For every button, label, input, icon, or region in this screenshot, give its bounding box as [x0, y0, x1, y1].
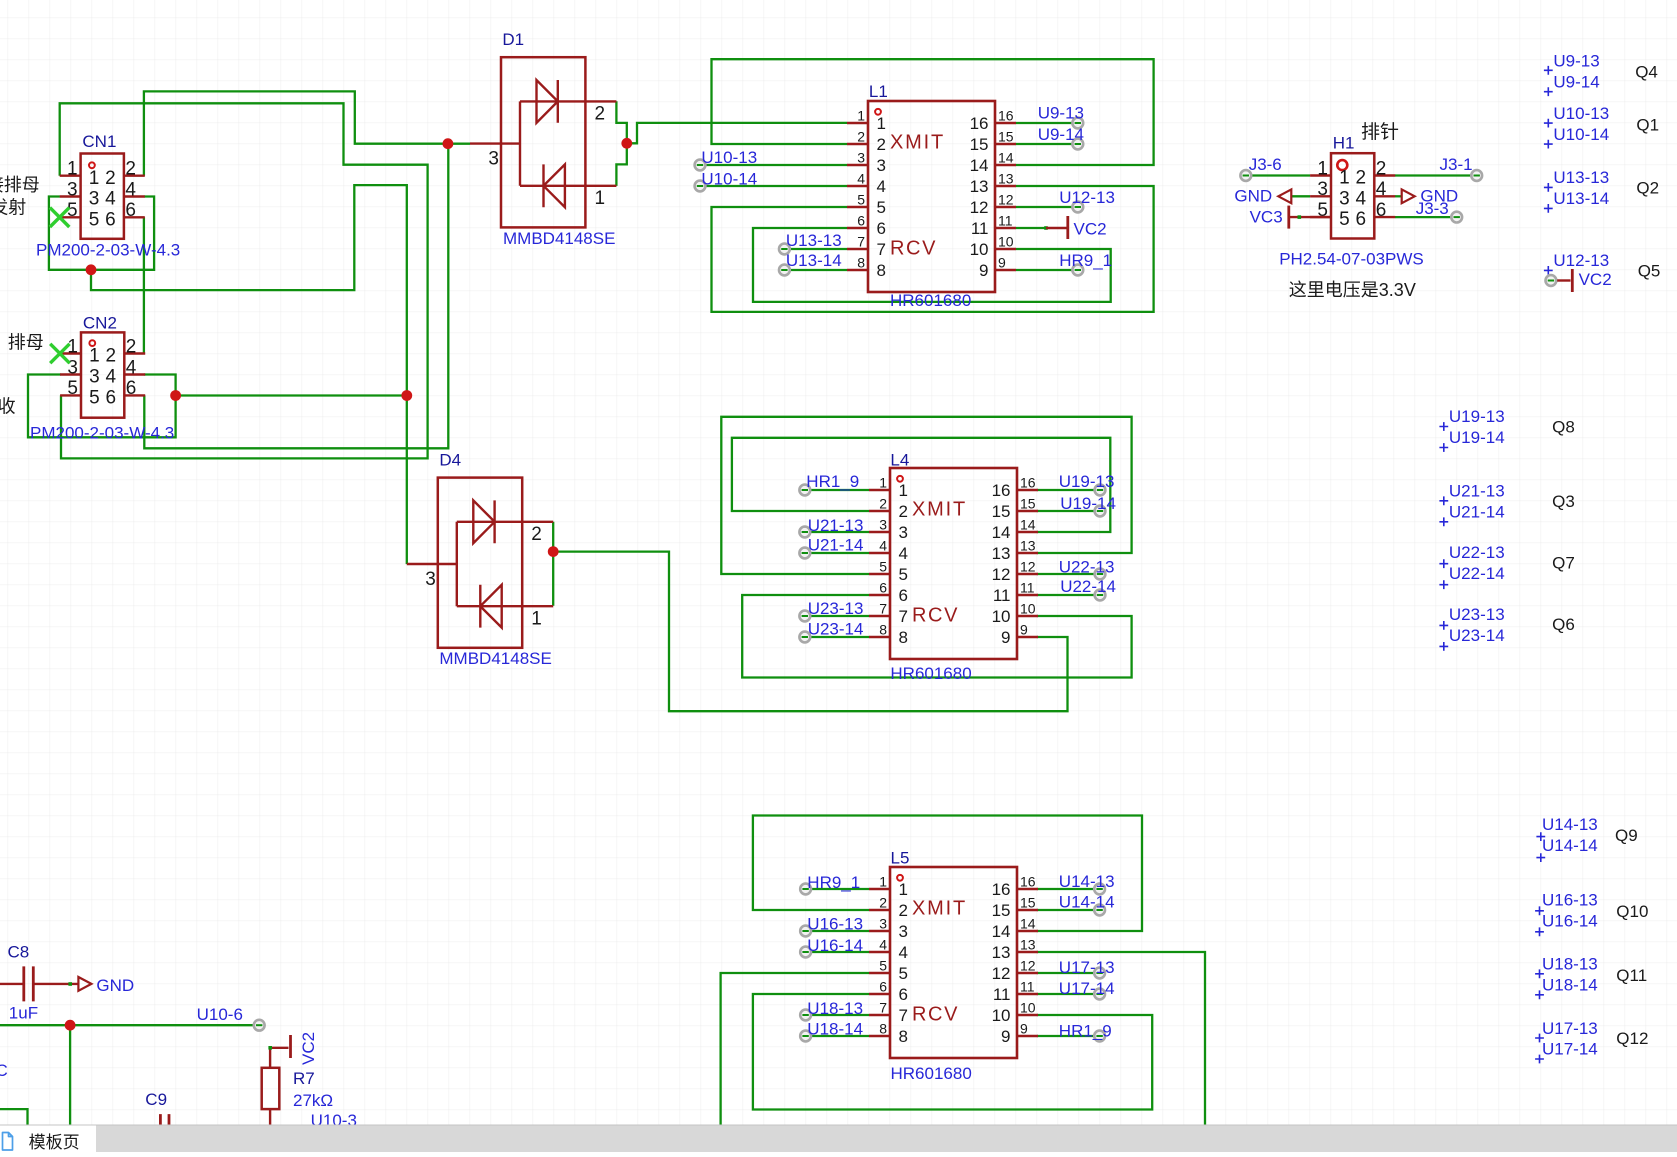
svg-text:U21-14: U21-14: [1449, 503, 1505, 522]
svg-text:11: 11: [993, 586, 1011, 605]
svg-text:15: 15: [1020, 496, 1036, 512]
svg-text:13: 13: [1020, 538, 1036, 554]
IC L1 pin 14: [995, 164, 1016, 166]
svg-text:2: 2: [106, 346, 117, 367]
svg-text:L5: L5: [891, 849, 910, 868]
svg-text:排针: 排针: [1361, 121, 1399, 143]
svg-text:U22-14: U22-14: [1060, 577, 1116, 596]
svg-text:U9-14: U9-14: [1038, 125, 1084, 144]
svg-text:5: 5: [857, 192, 865, 208]
wire H1 pin3 to GND: [1292, 195, 1311, 197]
IC L5 pin 2: [869, 909, 890, 911]
IC L1 pin 5: [847, 206, 868, 208]
wire L4 pin6 to pin10: [742, 595, 1131, 678]
connector CN1 pin 5: [60, 216, 81, 218]
wire CN1 pin1 to CN2 pin5: [60, 103, 428, 458]
connector H1 pin 1: [1310, 174, 1331, 176]
wire net U10-13 to L1 pin3: [700, 164, 847, 166]
wire CN2 pin6 to D1 pin3 junction: [144, 144, 448, 449]
IC L1 pin 1: [847, 122, 868, 124]
svg-text:10: 10: [992, 607, 1011, 626]
wire D4 output to L4 pin9: [553, 552, 1067, 712]
svg-text:U18-14: U18-14: [807, 1020, 863, 1039]
svg-text:2: 2: [126, 336, 137, 357]
diode D1 pin 3 lead: [470, 101, 520, 185]
svg-text:RCV: RCV: [912, 1004, 959, 1026]
wire U21-13 to L4 pin3: [805, 531, 869, 533]
svg-text:8: 8: [879, 622, 887, 638]
wire L4 pin11 to U22-14: [1037, 594, 1100, 596]
svg-text:5: 5: [89, 388, 100, 409]
svg-text:U17-13: U17-13: [1542, 1019, 1598, 1038]
svg-text:1: 1: [89, 168, 100, 189]
svg-text:4: 4: [899, 943, 908, 962]
svg-text:1: 1: [89, 346, 100, 367]
svg-text:XMIT: XMIT: [912, 898, 967, 920]
connector CN1 body: [81, 154, 124, 239]
svg-text:1: 1: [899, 880, 908, 899]
svg-text:U9-14: U9-14: [1553, 73, 1599, 92]
svg-text:14: 14: [970, 156, 989, 175]
wire J3-6 to H1 pin1: [1246, 174, 1310, 176]
net port U16-14: [800, 947, 811, 958]
net port U19-13: [1095, 485, 1106, 496]
svg-text:8: 8: [899, 628, 908, 647]
svg-text:4: 4: [1356, 188, 1367, 209]
svg-text:15: 15: [1020, 895, 1036, 911]
svg-text:12: 12: [992, 964, 1011, 983]
IC L5 pin 1: [869, 888, 890, 890]
IC L1 pin 10: [995, 248, 1016, 250]
IC L5 pin 14: [1017, 930, 1038, 932]
wire L4 pin2 to pin14: [732, 438, 1110, 532]
IC L1 pin 12: [995, 206, 1016, 208]
svg-text:U21-14: U21-14: [808, 536, 864, 555]
svg-text:3: 3: [89, 189, 100, 210]
IC L1 pin 16: [995, 122, 1016, 124]
svg-text:7: 7: [899, 1006, 908, 1025]
svg-text:PM200-2-03-W-4.3: PM200-2-03-W-4.3: [30, 424, 174, 443]
svg-text:5: 5: [89, 209, 100, 230]
IC L5 pin 5: [869, 972, 890, 974]
power symbol VC2 at L1 pin11: [1044, 226, 1048, 230]
svg-text:HR601680: HR601680: [891, 1064, 972, 1083]
wire U23-13 to L4 pin7: [805, 615, 869, 617]
net port VC2 at Q5: [1546, 275, 1557, 286]
wire D4 output jog: [552, 522, 554, 606]
svg-text:U23-14: U23-14: [808, 620, 864, 639]
svg-text:7: 7: [879, 601, 887, 617]
connector H1 pin-1 indicator: [1337, 160, 1347, 170]
svg-text:5: 5: [879, 958, 887, 974]
diode D4 pin 3 lead: [407, 522, 457, 606]
wire D1 pin3 stub: [448, 143, 470, 145]
svg-text:J3-3: J3-3: [1416, 199, 1449, 218]
IC L4 pin 7: [869, 615, 890, 617]
IC L5 pin 7: [869, 1014, 890, 1016]
svg-text:L1: L1: [869, 82, 888, 101]
wire H1 pin2 to J3-1: [1395, 174, 1477, 176]
svg-text:1: 1: [67, 159, 78, 180]
ground symbol GND at C8: [78, 977, 91, 991]
wire L1 pin9 to HR9_1: [1016, 269, 1078, 271]
net port U22-14: [1095, 590, 1106, 601]
svg-text:排母: 排母: [8, 333, 44, 353]
connector H1 pin 5: [1310, 216, 1331, 218]
svg-text:接排母: 接排母: [0, 175, 40, 195]
svg-text:3: 3: [877, 156, 886, 175]
svg-text:6: 6: [877, 219, 886, 238]
IC L1 pin 13: [995, 185, 1016, 187]
svg-text:13: 13: [1020, 937, 1036, 953]
svg-text:VC2: VC2: [299, 1032, 318, 1065]
IC L5 pin 12: [1017, 972, 1038, 974]
wire L1 pin11 to VC2: [1016, 227, 1046, 229]
svg-text:6: 6: [126, 378, 137, 399]
svg-text:U12-13: U12-13: [1553, 251, 1609, 270]
wire L1 pin16 to U9-13: [1016, 122, 1078, 124]
wire CN1 pin6 to CN2 pin2: [143, 217, 145, 353]
wire L5 pin16 to U14-13: [1037, 888, 1100, 890]
svg-text:U18-13: U18-13: [1542, 955, 1598, 974]
net port U21-13: [799, 527, 810, 538]
wire L5 pin15 to U14-14: [1037, 909, 1100, 911]
svg-text:D4: D4: [439, 451, 461, 470]
svg-text:7: 7: [879, 1000, 887, 1016]
svg-text:1: 1: [1317, 158, 1328, 179]
svg-text:Q6: Q6: [1552, 615, 1575, 634]
svg-text:3: 3: [899, 922, 908, 941]
svg-text:U19-13: U19-13: [1449, 407, 1505, 426]
svg-text:HR601680: HR601680: [890, 291, 971, 310]
svg-text:U23-13: U23-13: [1449, 605, 1505, 624]
svg-text:U23-13: U23-13: [808, 599, 864, 618]
wire net U10-14 to L1 pin4: [700, 185, 847, 187]
IC L5 pin 4: [869, 951, 890, 953]
svg-text:接收: 接收: [0, 397, 16, 417]
junction D1 output: [621, 138, 632, 149]
svg-text:U12-13: U12-13: [1059, 188, 1115, 207]
wire L1 pin6 to pin10: [753, 228, 1111, 302]
IC L4 pin 12: [1017, 573, 1038, 575]
svg-text:PM200-2-03-W-4.3: PM200-2-03-W-4.3: [36, 241, 180, 260]
svg-text:2: 2: [1356, 168, 1367, 189]
svg-text:U10-6: U10-6: [197, 1005, 243, 1024]
junction CN2 pin4: [170, 390, 181, 401]
IC L4 pin 14: [1017, 531, 1038, 533]
net port U17-13: [1094, 968, 1105, 979]
svg-text:Q5: Q5: [1638, 262, 1661, 281]
svg-text:VC2: VC2: [1074, 220, 1107, 239]
svg-text:4: 4: [877, 177, 886, 196]
svg-text:3: 3: [1339, 188, 1350, 209]
wire L4 pin5 to pin13: [721, 417, 1131, 574]
svg-text:Q12: Q12: [1616, 1029, 1648, 1048]
IC L4 pin 3: [869, 531, 890, 533]
svg-text:GND: GND: [96, 976, 134, 995]
svg-text:9: 9: [1001, 1027, 1010, 1046]
net port U13-14: [779, 265, 790, 276]
svg-text:3: 3: [857, 150, 865, 166]
svg-text:Q3: Q3: [1552, 492, 1575, 511]
svg-text:1: 1: [857, 108, 865, 124]
wire L5 pin2 to pin14: [753, 816, 1142, 932]
svg-text:5: 5: [67, 378, 78, 399]
svg-text:U10-14: U10-14: [701, 169, 757, 188]
wire U16-14 to L5 pin4: [806, 951, 869, 953]
svg-text:15: 15: [998, 129, 1014, 145]
svg-text:U14-14: U14-14: [1059, 892, 1115, 911]
IC L1 pin-1 indicator: [875, 109, 881, 115]
svg-text:H1: H1: [1333, 134, 1355, 153]
svg-text:XMIT: XMIT: [912, 499, 967, 521]
svg-text:3: 3: [67, 179, 78, 200]
IC L4 pin 15: [1017, 510, 1038, 512]
svg-text:RCV: RCV: [912, 605, 959, 627]
wire L1 pin5 to pin13: [712, 186, 1154, 312]
IC L1 pin 9: [995, 269, 1016, 271]
net port U23-13: [799, 611, 810, 622]
svg-text:4: 4: [125, 179, 136, 200]
svg-text:2: 2: [899, 901, 908, 920]
svg-text:Q11: Q11: [1616, 966, 1647, 985]
svg-text:U17-14: U17-14: [1059, 979, 1115, 998]
IC L5 pin 10: [1017, 1014, 1038, 1016]
wire L1 pin15 to U9-14: [1016, 143, 1078, 145]
svg-text:这里电压是3.3V: 这里电压是3.3V: [1289, 280, 1416, 300]
connector H1 body: [1331, 153, 1374, 238]
svg-text:Q9: Q9: [1615, 826, 1638, 845]
svg-text:3: 3: [879, 517, 887, 533]
svg-text:1: 1: [531, 609, 542, 630]
wire L5 pin9 to HR1_9: [1037, 1035, 1100, 1037]
svg-text:U13-13: U13-13: [786, 231, 842, 250]
svg-text:5: 5: [899, 565, 908, 584]
connector CN2 body: [81, 332, 124, 417]
wire L5 pin11 to U17-14: [1037, 993, 1100, 995]
diode D4 bottom diode element: [457, 585, 553, 628]
svg-text:PH2.54-07-03PWS: PH2.54-07-03PWS: [1279, 250, 1424, 269]
IC L5 pin 8: [869, 1035, 890, 1037]
net port HR1_9: [1094, 1031, 1105, 1042]
svg-text:Q4: Q4: [1635, 63, 1658, 82]
net port HR1_9: [799, 485, 810, 496]
IC L1 pin 6: [847, 227, 868, 229]
capacitor C8 plates: [24, 966, 34, 1001]
svg-text:16: 16: [992, 880, 1011, 899]
wire L4 pin15 to U19-14: [1037, 510, 1100, 512]
svg-text:U9-13: U9-13: [1038, 104, 1084, 123]
wire U18-13 to L5 pin7: [806, 1014, 869, 1016]
svg-text:U19-14: U19-14: [1060, 494, 1116, 513]
wire junction below CN1 to D4 pin3: [91, 185, 407, 564]
svg-text:9: 9: [1020, 1021, 1028, 1037]
svg-text:14: 14: [992, 922, 1011, 941]
wire net U13-13 to L1 pin7: [784, 248, 847, 250]
svg-text:VC2: VC2: [1579, 270, 1612, 289]
wire C8 to GND: [33, 983, 78, 985]
wire L4 pin12 to U22-13: [1037, 573, 1100, 575]
wire L1 pin2 to pin14: [712, 59, 1154, 165]
IC L5 pin-1 indicator: [897, 875, 903, 881]
svg-text:HR601680: HR601680: [890, 664, 971, 683]
wire U21-14 to L4 pin4: [805, 552, 869, 554]
IC L1 HR601680 body: [868, 101, 995, 292]
net port U14-14: [1094, 905, 1105, 916]
svg-text:2: 2: [857, 129, 865, 145]
svg-text:3: 3: [488, 149, 499, 170]
svg-text:13: 13: [992, 544, 1011, 563]
svg-text:4: 4: [857, 171, 865, 187]
net port U16-13: [800, 926, 811, 937]
svg-text:2: 2: [595, 104, 606, 125]
wire U16-13 to L5 pin3: [806, 930, 869, 932]
ground symbol right of H1: [1402, 189, 1415, 203]
svg-text:4: 4: [899, 544, 908, 563]
svg-text:8: 8: [857, 255, 865, 271]
wire junction drop bottom-left: [69, 1025, 71, 1152]
IC L4 pin 8: [869, 636, 890, 638]
wire CN1 pin2 to D1 pin3: [144, 91, 448, 175]
svg-text:6: 6: [879, 580, 887, 596]
svg-text:3: 3: [1317, 179, 1328, 200]
IC L4 pin 10: [1017, 615, 1038, 617]
UI tab bar: [0, 1125, 1677, 1152]
svg-text:2: 2: [877, 135, 886, 154]
diode D4 top diode element: [457, 500, 553, 543]
net port U10-14: [695, 181, 706, 192]
resistor R7 leads: [269, 1048, 271, 1126]
wire net U13-14 to L1 pin8: [784, 269, 847, 271]
wire CN1 pin3 loop to pin4: [49, 197, 154, 270]
svg-text:13: 13: [998, 171, 1014, 187]
svg-text:7: 7: [877, 240, 886, 259]
wire L5 pin13 down: [1037, 952, 1205, 1152]
svg-text:GND: GND: [1234, 187, 1272, 206]
svg-text:发射: 发射: [0, 197, 26, 217]
svg-text:12: 12: [992, 565, 1011, 584]
svg-text:2: 2: [1376, 158, 1387, 179]
svg-text:6: 6: [105, 209, 116, 230]
svg-text:U22-13: U22-13: [1449, 543, 1505, 562]
wire net U10-6: [0, 1024, 259, 1026]
svg-text:12: 12: [970, 198, 989, 217]
svg-text:MMBD4148SE: MMBD4148SE: [439, 649, 551, 668]
svg-text:U17-13: U17-13: [1059, 958, 1115, 977]
svg-text:Q1: Q1: [1636, 116, 1659, 135]
svg-text:7: 7: [899, 607, 908, 626]
connector CN1 pin-1 indicator: [89, 162, 95, 168]
IC L1 pin 7: [847, 248, 868, 250]
wire CN2 net to D4 vertical: [176, 394, 407, 396]
net port U19-14: [1095, 506, 1106, 517]
wire H1 pin4 to GND: [1395, 195, 1401, 197]
IC L4 pin 5: [869, 573, 890, 575]
IC L4 pin-1 indicator: [897, 476, 903, 482]
IC L1 pin 8: [847, 269, 868, 271]
svg-text:10: 10: [992, 1006, 1011, 1025]
svg-text:6: 6: [1356, 209, 1367, 230]
junction U10-6 wire: [65, 1020, 76, 1031]
svg-text:U10-13: U10-13: [1553, 104, 1609, 123]
svg-text:10: 10: [970, 240, 989, 259]
svg-text:3: 3: [899, 523, 908, 542]
connector CN1 pin 2: [124, 174, 145, 176]
IC L4 pin 1: [869, 489, 890, 491]
svg-text:12: 12: [1020, 559, 1036, 575]
svg-text:CN1: CN1: [82, 132, 116, 151]
wire L4 pin16 to U19-13: [1037, 489, 1100, 491]
svg-text:C: C: [0, 1061, 8, 1080]
net port U21-14: [799, 548, 810, 559]
connector CN1 pin 3: [60, 195, 81, 197]
net port U9-14: [1072, 139, 1083, 150]
net port HR9_1: [1072, 265, 1083, 276]
svg-text:U13-14: U13-14: [1553, 189, 1609, 208]
svg-text:8: 8: [899, 1027, 908, 1046]
net port U10-6: [254, 1020, 265, 1031]
svg-text:RCV: RCV: [890, 238, 937, 260]
svg-text:12: 12: [998, 192, 1014, 208]
svg-text:14: 14: [1020, 916, 1036, 932]
svg-text:15: 15: [992, 502, 1011, 521]
connector CN2 pin 3: [60, 373, 81, 375]
svg-text:10: 10: [1020, 1000, 1036, 1016]
IC L5 HR601680 body: [890, 867, 1017, 1058]
power symbol VC2 at Q5: [1557, 279, 1570, 281]
svg-text:8: 8: [877, 261, 886, 280]
svg-text:6: 6: [899, 586, 908, 605]
net port U13-13: [779, 244, 790, 255]
IC L4 pin 9: [1017, 636, 1038, 638]
IC L1 pin 15: [995, 143, 1016, 145]
svg-text:U16-14: U16-14: [807, 936, 863, 955]
connector CN2 pin 2: [124, 352, 145, 354]
IC L5 pin 9: [1017, 1035, 1038, 1037]
net port J3-6: [1240, 170, 1251, 181]
net port U9-13: [1072, 118, 1083, 129]
svg-text:Q8: Q8: [1552, 418, 1575, 437]
svg-text:4: 4: [879, 937, 887, 953]
IC L1 pin 2: [847, 143, 868, 145]
net port U12-13: [1072, 202, 1083, 213]
svg-text:1: 1: [67, 336, 78, 357]
power symbol VC2 bottom-left: [270, 1047, 288, 1049]
wire bottom-left corner: [0, 1109, 28, 1152]
svg-text:4: 4: [105, 189, 116, 210]
net port J3-3: [1451, 212, 1462, 223]
IC L1 pin 11: [995, 227, 1016, 229]
svg-text:5: 5: [1339, 209, 1350, 230]
svg-text:U19-14: U19-14: [1449, 428, 1505, 447]
svg-text:4: 4: [1376, 179, 1387, 200]
IC L5 pin 11: [1017, 993, 1038, 995]
connector CN1 pin 6: [124, 216, 145, 218]
svg-text:HR9_1: HR9_1: [1059, 251, 1112, 270]
connector H1 pin 6: [1374, 216, 1395, 218]
capacitor C9 plates: [160, 1114, 169, 1131]
wire CN2 pin4 drop: [144, 375, 176, 396]
svg-text:15: 15: [992, 901, 1011, 920]
IC L5 pin 3: [869, 930, 890, 932]
svg-text:16: 16: [992, 481, 1011, 500]
svg-text:U17-14: U17-14: [1542, 1040, 1598, 1059]
svg-text:D1: D1: [502, 30, 524, 49]
svg-text:4: 4: [879, 538, 887, 554]
svg-text:U14-14: U14-14: [1542, 836, 1598, 855]
svg-text:12: 12: [1020, 958, 1036, 974]
svg-text:11: 11: [1020, 580, 1035, 596]
